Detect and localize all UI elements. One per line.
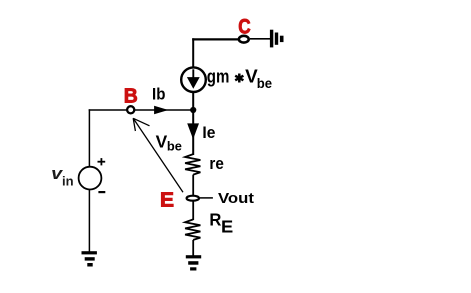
wire corner vertical: down to current source top [192,38,194,67]
wire node B to junction [135,109,193,111]
svg-text:B: B [124,86,138,108]
svg-text:E: E [221,217,233,237]
wire node E down to RE [192,201,194,220]
minus sign [98,191,105,193]
Vbe measurement arrow (diagonal, open head) [133,118,183,192]
node E open ellipse [187,196,199,201]
wire current source bottom to junction [192,92,194,110]
resistor RE [185,219,200,240]
svg-text:in: in [62,174,74,189]
wire node C to ground [250,38,271,40]
svg-text:Ie: Ie [202,123,215,142]
ground below RE [186,255,201,270]
svg-text:R: R [209,210,221,230]
wire re bottom to node E [192,175,194,195]
svg-text:Vout: Vout [218,190,254,207]
wire RE bottom to ground [192,240,194,256]
arrow Ie (emitter current) [187,123,199,139]
node C open circle [239,36,249,43]
star (multiplication) [235,74,243,83]
current source gm*Vbe circle [181,67,206,92]
junction node dot [190,107,196,113]
current source arrow [187,69,200,88]
node B open circle [127,106,134,113]
vin source circle [79,167,102,190]
wire junction down to re [192,110,194,155]
svg-text:gm: gm [207,66,230,86]
svg-text:Ib: Ib [152,84,165,103]
svg-text:E: E [160,189,174,211]
resistor re [185,154,200,175]
wire base corner down to vin source [88,109,90,167]
wire top horizontal: collector corner to node C [192,38,239,40]
svg-text:be: be [167,138,182,153]
ground below vin [82,251,97,266]
svg-text:re: re [209,154,223,173]
wire vin bottom to ground [88,190,90,252]
svg-text:be: be [257,75,272,91]
plus sign [98,158,106,165]
wire base: left corner to node B [89,109,127,111]
ground at C (rotated right) [270,30,284,48]
arrow Ib (current into base) [154,106,168,115]
wire node E to Vout [200,197,213,199]
svg-text:V: V [156,132,168,152]
